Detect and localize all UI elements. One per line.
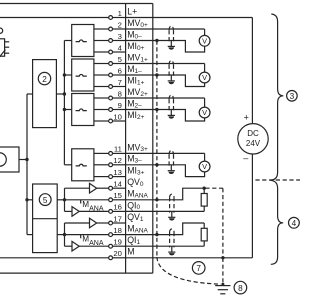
svg-text:V: V <box>202 36 207 45</box>
svg-text:13: 13 <box>113 168 122 177</box>
svg-text:MANA: MANA <box>127 189 148 200</box>
svg-text:3: 3 <box>118 32 122 41</box>
svg-text:MANA: MANA <box>127 224 148 235</box>
svg-text:+: + <box>244 113 249 123</box>
svg-text:V: V <box>202 108 207 117</box>
svg-text:MV1+: MV1+ <box>127 52 148 63</box>
svg-text:M3–: M3– <box>127 154 142 165</box>
svg-text:MI3+: MI3+ <box>127 166 144 177</box>
svg-text:10: 10 <box>113 112 122 121</box>
svg-text:MV2+: MV2+ <box>127 87 148 98</box>
svg-text:QV1: QV1 <box>127 212 144 223</box>
svg-text:7: 7 <box>118 78 122 87</box>
svg-text:18: 18 <box>113 226 122 235</box>
svg-text:QI1: QI1 <box>127 235 140 246</box>
svg-text:V: V <box>202 162 207 171</box>
svg-text:8: 8 <box>118 89 122 98</box>
svg-text:MV3+: MV3+ <box>127 142 148 153</box>
svg-text:L+: L+ <box>127 6 137 16</box>
svg-text:24V: 24V <box>246 139 261 148</box>
svg-text:MANA: MANA <box>82 200 104 213</box>
svg-text:2: 2 <box>118 20 122 29</box>
svg-text:14: 14 <box>113 180 122 189</box>
svg-text:MI2+: MI2+ <box>127 110 144 121</box>
svg-text:4: 4 <box>292 219 297 228</box>
svg-text:1: 1 <box>118 9 122 18</box>
svg-text:MV0+: MV0+ <box>127 18 148 29</box>
svg-text:11: 11 <box>114 145 122 154</box>
svg-text:19: 19 <box>113 238 122 247</box>
svg-text:3: 3 <box>290 92 295 101</box>
svg-text:16: 16 <box>113 203 122 212</box>
svg-text:5: 5 <box>43 196 48 205</box>
svg-text:5: 5 <box>118 55 122 64</box>
svg-text:M: M <box>127 247 134 257</box>
svg-text:7: 7 <box>196 264 201 273</box>
svg-text:2: 2 <box>42 75 47 84</box>
svg-text:DC: DC <box>247 129 259 138</box>
svg-text:M1–: M1– <box>127 64 142 75</box>
svg-text:17: 17 <box>113 214 122 223</box>
svg-text:15: 15 <box>113 191 122 200</box>
svg-text:8: 8 <box>238 284 243 293</box>
svg-text:MANA: MANA <box>82 235 104 248</box>
svg-text:20: 20 <box>113 249 122 258</box>
svg-text:V: V <box>202 73 207 82</box>
svg-text:M0–: M0– <box>127 29 142 40</box>
svg-text:QV0: QV0 <box>127 177 144 188</box>
svg-text:M2–: M2– <box>127 98 142 109</box>
svg-text:6: 6 <box>118 66 122 75</box>
svg-text:12: 12 <box>113 156 122 165</box>
svg-text:QI0: QI0 <box>127 200 140 211</box>
svg-text:4: 4 <box>118 43 123 52</box>
svg-text:9: 9 <box>118 101 122 110</box>
svg-text:–: – <box>243 153 248 163</box>
svg-text:MI0+: MI0+ <box>127 41 144 52</box>
svg-text:MI1+: MI1+ <box>127 75 144 86</box>
